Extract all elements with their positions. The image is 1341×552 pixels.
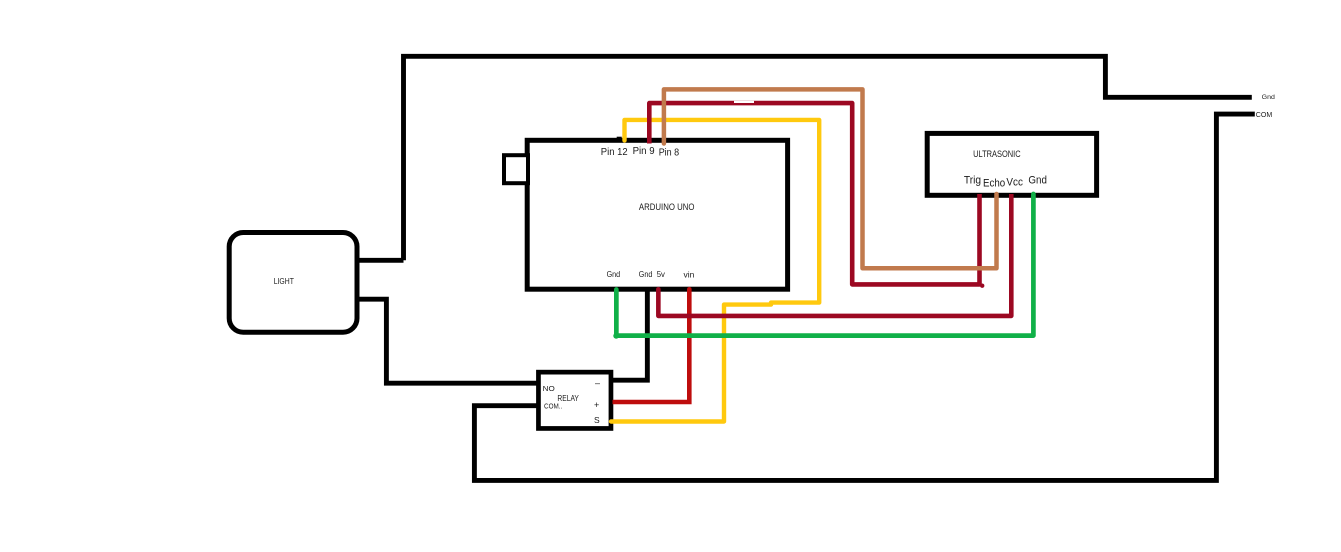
wire black Gnd loop from LIGHT to right edge (404, 56, 1252, 260)
wire darkred arduino Pin 9 to ultrasonic Trig (649, 103, 979, 284)
svg-text:Gnd: Gnd (1262, 94, 1275, 101)
svg-text:ARDUINO UNO: ARDUINO UNO (639, 202, 695, 212)
svg-text:Echo: Echo (983, 178, 1005, 190)
svg-text:vin: vin (684, 271, 695, 280)
wire brown arduino Pin 8 to ultrasonic Echo (664, 89, 997, 268)
wire red arduino vin to relay plus (613, 290, 690, 403)
sensor ULTRASONIC box (927, 133, 1096, 195)
green junction blob at gnd corner (613, 333, 619, 339)
svg-text:Vcc: Vcc (1006, 177, 1023, 189)
svg-text:COM..: COM.. (544, 403, 562, 410)
wire black COM from relay COM to right edge (474, 114, 1254, 480)
white notch artifact on darkred top run (734, 101, 754, 103)
svg-text:RELAY: RELAY (557, 394, 579, 403)
usb tab on arduino left (504, 155, 528, 183)
wire black LIGHT bottom terminal to relay NO (358, 299, 539, 383)
svg-text:ULTRASONIC: ULTRASONIC (973, 149, 1021, 159)
wire black LIGHT top terminal (358, 258, 404, 263)
svg-text:Trig: Trig (964, 175, 981, 187)
wire green arduino Gnd to ultrasonic Gnd (616, 194, 1033, 336)
svg-text:Pin 12: Pin 12 (601, 147, 628, 158)
relay RELAY box (538, 372, 611, 428)
round cap blob on 5v stub (656, 287, 661, 292)
svg-text:Gnd: Gnd (1028, 175, 1047, 187)
lamp LIGHT box (229, 233, 357, 333)
mcu ARDUINO UNO box (527, 140, 787, 289)
wire yellow relay S to arduino Pin 12 (611, 120, 819, 422)
maroon cap blob at trig corner (980, 284, 984, 288)
svg-text:Gnd: Gnd (607, 270, 621, 279)
svg-text:+: + (594, 400, 599, 410)
svg-text:LIGHT: LIGHT (274, 277, 294, 286)
black border bump artifact left of yellow stub (617, 137, 622, 141)
svg-text:COM: COM (1256, 110, 1272, 119)
wire black arduino Gnd pin to relay minus (613, 288, 647, 380)
svg-text:S: S (594, 415, 600, 425)
svg-text:Pin 8: Pin 8 (659, 147, 680, 158)
svg-text:5v: 5v (657, 270, 665, 279)
svg-text:–: – (595, 378, 600, 388)
svg-text:Pin 9: Pin 9 (633, 146, 655, 157)
svg-text:Gnd: Gnd (639, 270, 653, 279)
svg-text:NO: NO (543, 384, 555, 393)
round cap blob on vin stub (687, 287, 692, 292)
wire darkred arduino 5v to ultrasonic Vcc (658, 194, 1011, 316)
